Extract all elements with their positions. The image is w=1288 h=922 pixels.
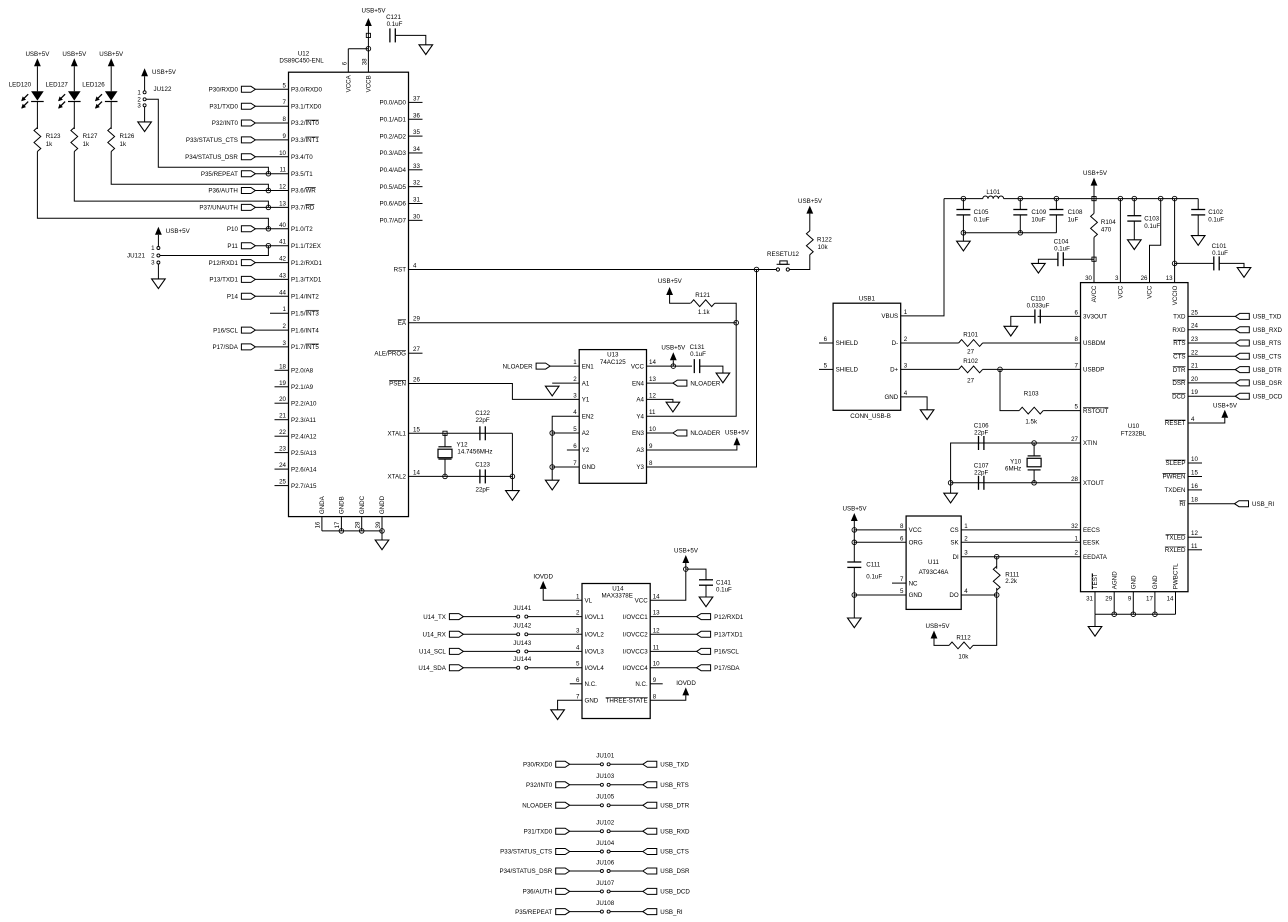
svg-text:4: 4 [904, 390, 908, 397]
svg-text:15: 15 [1191, 470, 1198, 477]
svg-text:USB_RTS: USB_RTS [660, 782, 688, 789]
wire USB+5V to R121 [670, 295, 691, 303]
wire P33/STATUS_CTS to JU104 [570, 851, 601, 853]
svg-text:GND: GND [585, 698, 599, 705]
wire U14_SCL to JU143 [463, 650, 516, 652]
svg-text:1: 1 [904, 309, 908, 316]
svg-text:13: 13 [1166, 275, 1173, 282]
U12 pin 15 XTAL1 label [388, 426, 421, 437]
svg-text:FT232BL: FT232BL [1121, 431, 1147, 438]
wire R103 to RSTOUT [1043, 410, 1080, 412]
svg-text:R126: R126 [120, 133, 135, 140]
wire RESETU12 to R122 [789, 255, 809, 270]
wire JU122 pin2 to P3.5 net [146, 99, 268, 173]
svg-text:USB_RTS: USB_RTS [1253, 340, 1281, 347]
svg-text:USB+5V: USB+5V [25, 51, 50, 58]
IC U14 MAX3378E body [582, 584, 650, 719]
U12 pin 22 P2.4/A12 [275, 429, 318, 440]
U10 pin 4 RESET label [1165, 416, 1195, 427]
wire XTAL1 net [409, 432, 513, 434]
svg-text:3: 3 [576, 627, 580, 634]
U12 pin 2 P1.6/INT4 label [283, 323, 320, 334]
IC U13 74AC125 body [579, 350, 646, 484]
capacitor C106 22pF [974, 423, 989, 450]
junction rail-C103 [1132, 196, 1137, 201]
svg-text:CS: CS [950, 527, 959, 534]
IC U14 title [602, 586, 633, 600]
svg-text:NLOADER: NLOADER [522, 803, 552, 810]
svg-text:GND: GND [909, 592, 923, 599]
U12 pin 23 P2.5/A13 [275, 446, 318, 457]
svg-text:6: 6 [341, 61, 348, 65]
resistor R101 27 [959, 332, 983, 356]
svg-text:11: 11 [1191, 543, 1198, 550]
svg-text:USB+5V: USB+5V [661, 344, 686, 351]
svg-text:9: 9 [1128, 596, 1132, 603]
svg-text:R121: R121 [695, 292, 710, 299]
svg-text:LED120: LED120 [9, 81, 32, 88]
U13 pin 5 A2 label [573, 426, 590, 437]
connector flag P33/STATUS_CTS [186, 137, 256, 144]
U11 pin 6 ORG label [900, 535, 923, 546]
svg-text:RSTOUT: RSTOUT [1083, 408, 1109, 415]
connector flag P31/TXD0 [209, 103, 255, 110]
svg-text:P3.1/TXD0: P3.1/TXD0 [291, 103, 322, 110]
svg-text:TXD: TXD [1173, 314, 1186, 321]
svg-text:USB_DCD: USB_DCD [1253, 393, 1283, 400]
U12 pin 8 P3.2/INT0 label [283, 116, 320, 127]
svg-text:I/OVL1: I/OVL1 [585, 614, 605, 621]
U10 pin 31 TEST [1086, 573, 1099, 614]
svg-text:GNDD: GNDD [379, 495, 386, 514]
svg-text:P0.7/AD7: P0.7/AD7 [380, 218, 407, 225]
capacitor C107 22pF [974, 462, 989, 489]
svg-text:P0.0/AD0: P0.0/AD0 [380, 100, 407, 107]
jumper JU104 [596, 840, 614, 853]
svg-text:6: 6 [576, 677, 580, 684]
svg-text:USBDP: USBDP [1083, 367, 1104, 374]
svg-text:P1.7/INT5: P1.7/INT5 [291, 344, 319, 351]
U10 pin 29 AGND [1105, 571, 1118, 614]
jumper JU143 [513, 640, 531, 653]
connector flag P30/RXD0 [209, 86, 256, 93]
U12 pin 4 RST label [394, 263, 417, 274]
svg-text:P34/STATUS_DSR: P34/STATUS_DSR [185, 154, 238, 161]
wire JU143 to U14 [528, 650, 582, 652]
svg-text:R104: R104 [1101, 219, 1116, 226]
svg-text:44: 44 [279, 289, 286, 296]
U12 pin 30 P0.7/AD7 [380, 213, 423, 224]
svg-text:USB1: USB1 [859, 296, 876, 303]
U11 pin 5 GND label [900, 588, 923, 599]
svg-text:XTIN: XTIN [1083, 440, 1097, 447]
svg-text:GNDC: GNDC [359, 495, 366, 514]
wire VBUS to rail [901, 199, 944, 316]
junction rail-C109 [1018, 196, 1023, 201]
svg-text:2: 2 [904, 336, 908, 343]
U12 pin 10 P3.4/T0 label [279, 150, 313, 161]
svg-text:EN4: EN4 [632, 380, 645, 387]
wire VCC pin3 [1119, 199, 1121, 283]
U11 pin 4 DO label [949, 588, 968, 599]
connector flag P36/AUTH [208, 188, 255, 195]
svg-text:C108: C108 [1068, 209, 1083, 216]
svg-text:USB_CTS: USB_CTS [1253, 354, 1282, 361]
svg-text:USB+5V: USB+5V [1083, 170, 1108, 177]
connector flag NLOADER (JU105) [522, 802, 569, 809]
svg-text:3: 3 [573, 392, 577, 399]
svg-text:RXD: RXD [1172, 327, 1186, 334]
U10 pin 13 VCCIO [1166, 275, 1179, 305]
svg-text:11: 11 [649, 409, 656, 416]
junction XTIN-Y10 [1032, 441, 1037, 446]
svg-text:Y2: Y2 [582, 447, 590, 454]
svg-text:21: 21 [279, 413, 286, 420]
svg-text:P16/SCL: P16/SCL [714, 649, 739, 656]
U13 pin 3 Y1 label [573, 392, 590, 403]
svg-text:P3.7/RD: P3.7/RD [291, 205, 315, 212]
jumper JU103 [596, 773, 614, 786]
ground (U13 A4) [666, 402, 680, 412]
svg-text:A2: A2 [582, 430, 590, 437]
junction U13 A2 [550, 431, 555, 436]
svg-text:10uF: 10uF [1031, 217, 1045, 224]
svg-text:JU121: JU121 [127, 253, 145, 260]
svg-text:0.033uF: 0.033uF [1027, 302, 1050, 309]
U10 pin 2 EEDATA label [1075, 550, 1108, 561]
connector flag USB_RI [1235, 501, 1275, 508]
U10 pin 27 XTIN label [1071, 436, 1097, 447]
wire RESET to USB+5V [1188, 418, 1225, 423]
ground (C102) [1191, 236, 1205, 246]
svg-text:PWREN: PWREN [1162, 474, 1185, 481]
wire JU142 to U14 [528, 633, 582, 635]
svg-text:1.1k: 1.1k [698, 309, 711, 316]
connector flag USB_RXD [1235, 327, 1282, 334]
svg-text:C101: C101 [1212, 243, 1227, 250]
svg-text:2: 2 [1075, 550, 1079, 557]
svg-text:A3: A3 [636, 447, 644, 454]
connector flag USB_CTS (JU104) [643, 849, 689, 856]
connector flag P31/TXD0 (JU102) [524, 828, 570, 835]
wire JU101 to USB_TXD [610, 763, 643, 765]
svg-text:2: 2 [964, 535, 968, 542]
svg-text:38: 38 [361, 58, 368, 65]
junction P1.1 net [266, 243, 271, 248]
svg-text:VCCB: VCCB [366, 75, 373, 92]
power USB+5V (LED120) [25, 51, 50, 66]
U12 pin 35 P0.2/AD2 [380, 129, 423, 140]
svg-text:P36/AUTH: P36/AUTH [208, 188, 238, 195]
U14 pin 7 GND label [576, 693, 599, 704]
connector flag U14_TX [423, 614, 463, 621]
svg-text:40: 40 [279, 222, 286, 229]
svg-text:JU142: JU142 [513, 623, 531, 630]
U11 pin 3 DI label [953, 550, 969, 561]
svg-text:EN3: EN3 [632, 430, 645, 437]
svg-text:P17/SDA: P17/SDA [714, 665, 740, 672]
svg-text:EN1: EN1 [582, 363, 595, 370]
svg-text:22pF: 22pF [476, 417, 490, 424]
svg-text:C109: C109 [1031, 209, 1046, 216]
wire D+ to R102 [901, 368, 959, 370]
wire P35/REPEAT to JU108 [570, 911, 601, 913]
junction XTAL1-Y12 [443, 431, 447, 435]
U10 pin 21 DTR label [1173, 363, 1199, 374]
svg-text:17: 17 [334, 521, 341, 528]
wire P13/TXD1 to U12 pin 43 [255, 278, 288, 280]
svg-text:C104: C104 [1054, 238, 1069, 245]
U12 pin 20 P2.2/A10 [275, 396, 318, 407]
svg-text:C110: C110 [1031, 295, 1046, 302]
svg-text:22: 22 [1191, 349, 1198, 356]
svg-text:2: 2 [151, 253, 155, 260]
ground (U13) [545, 480, 559, 490]
svg-text:U14_TX: U14_TX [423, 614, 446, 621]
IC U10 title [1121, 423, 1147, 438]
svg-text:P1.5/INT3: P1.5/INT3 [291, 310, 319, 317]
svg-text:TXLED: TXLED [1166, 534, 1186, 541]
junction P1.0 net [266, 227, 271, 232]
wire C105 bottom lead [962, 215, 964, 233]
svg-text:7: 7 [283, 99, 287, 106]
svg-text:C103: C103 [1144, 215, 1159, 222]
wire P16/SCL to U12 pin 2 [255, 329, 288, 331]
U10 pin 12 TXLED [1166, 530, 1202, 541]
svg-text:20: 20 [1191, 376, 1198, 383]
wire JU141 to U14 [528, 616, 582, 618]
svg-text:22pF: 22pF [974, 430, 988, 437]
svg-text:JU141: JU141 [513, 605, 531, 612]
power USB+5V (U11) [843, 505, 868, 521]
svg-text:7: 7 [1075, 362, 1079, 369]
svg-text:LED126: LED126 [82, 81, 105, 88]
wire NLOADER to EN1 [550, 365, 579, 367]
svg-text:24: 24 [1191, 323, 1198, 330]
svg-text:RI: RI [1179, 501, 1185, 508]
jumper JU105 [596, 794, 614, 807]
svg-text:EA: EA [398, 320, 407, 327]
wire RXD to USB_RXD [1188, 329, 1235, 331]
wire to ground (XTAL Y10) [950, 483, 952, 493]
svg-text:43: 43 [279, 272, 286, 279]
svg-text:IOVDD: IOVDD [533, 573, 553, 580]
ground (C121) [419, 45, 433, 55]
svg-text:P3.4/T0: P3.4/T0 [291, 154, 313, 161]
jumper JU122 [137, 86, 172, 110]
capacitor C104 0.1uF [1054, 238, 1071, 266]
wire VCCB to USB+5V [367, 26, 369, 35]
svg-text:4: 4 [576, 644, 580, 651]
svg-text:R102: R102 [963, 358, 978, 365]
svg-text:USB_RI: USB_RI [1252, 501, 1275, 508]
svg-text:34: 34 [413, 146, 420, 153]
svg-text:0.1uF: 0.1uF [716, 587, 732, 594]
power USB+5V (R112) [926, 623, 951, 639]
ground (C105/C109/C108) [957, 241, 971, 251]
svg-text:USB+5V: USB+5V [152, 69, 177, 76]
svg-text:U14_RX: U14_RX [423, 632, 446, 639]
svg-text:NLOADER: NLOADER [690, 380, 720, 387]
U10 pin 32 EECS label [1071, 523, 1100, 534]
connector flag USB_RTS [1235, 340, 1281, 347]
svg-text:USB_DSR: USB_DSR [660, 868, 690, 875]
svg-text:33: 33 [413, 163, 420, 170]
power IOVDD (U14 pin8) [676, 680, 696, 696]
svg-text:P3.5/T1: P3.5/T1 [291, 171, 313, 178]
svg-text:VBUS: VBUS [881, 313, 898, 320]
svg-text:U14: U14 [612, 586, 624, 593]
wire RTS to USB_RTS [1188, 342, 1235, 344]
USB1 pin 6 SHIELD [819, 336, 858, 347]
svg-text:VCC: VCC [635, 598, 649, 605]
wire P34/STATUS_DSR to U12 pin 10 [255, 156, 288, 158]
power IOVDD (U14 VL) [533, 573, 553, 589]
wire JU122 pin3 to ground [144, 107, 146, 122]
svg-text:PSEN: PSEN [389, 381, 406, 388]
svg-text:USB+5V: USB+5V [926, 623, 951, 630]
svg-text:USBDM: USBDM [1083, 340, 1105, 347]
wire power rail 2 [1004, 198, 1199, 200]
ground (U11) [848, 618, 862, 628]
wire P30/RXD0 to U12 pin 5 [255, 88, 288, 90]
svg-text:USB_DTR: USB_DTR [1253, 367, 1282, 374]
svg-text:P17/SDA: P17/SDA [212, 344, 238, 351]
svg-text:AVCC: AVCC [1091, 285, 1098, 302]
wire U11 gnd stem [853, 595, 855, 618]
connector USB1 CONN_USB-B body [833, 303, 901, 410]
svg-text:C122: C122 [475, 410, 490, 417]
IC U11 title [919, 559, 950, 576]
power USB+5V (R121) [658, 278, 683, 295]
svg-text:P37/UNAUTH: P37/UNAUTH [199, 205, 238, 212]
U12 pin 43 P1.3/TXD1 label [279, 272, 322, 283]
svg-text:12: 12 [649, 392, 656, 399]
wire D- to R101 [901, 342, 959, 344]
power USB+5V (U13) [661, 344, 686, 360]
wire R103 branch [1000, 369, 1019, 410]
U12 pin 1 stub [270, 312, 289, 314]
svg-text:15: 15 [413, 426, 420, 433]
svg-text:3: 3 [283, 340, 287, 347]
svg-text:3: 3 [964, 550, 968, 557]
wire JU121 pin3 to ground [157, 264, 159, 279]
svg-text:D+: D+ [890, 367, 898, 374]
svg-text:USB_TXD: USB_TXD [660, 762, 689, 769]
svg-text:CTS: CTS [1173, 354, 1185, 361]
svg-text:P2.4/A12: P2.4/A12 [291, 433, 317, 440]
svg-text:R103: R103 [1024, 390, 1039, 397]
U10 pin 6 3V3OUT label [1075, 309, 1108, 320]
wire USB+5V to U11 VCC [854, 521, 906, 530]
U12 pin 37 P0.0/AD0 [380, 95, 423, 106]
wire PSEN to U13 Y1 [409, 384, 580, 400]
svg-text:27: 27 [1071, 436, 1078, 443]
svg-text:13: 13 [279, 200, 286, 207]
U12 pin 19 P2.1/A9 [275, 380, 314, 391]
wire C122/C123 to ground [511, 433, 513, 490]
capacitor C109 10uF [1013, 209, 1046, 224]
U14 pin 5 I/OVL4 label [576, 661, 604, 672]
ground (U10) [1088, 627, 1102, 637]
wire EA net [409, 322, 737, 324]
U12 pin 44 P1.4/INT2 label [279, 289, 319, 300]
svg-text:1: 1 [151, 245, 155, 252]
junction U11 VCC [852, 528, 857, 533]
U10 pin 30 AVCC [1085, 275, 1098, 302]
svg-text:U13: U13 [607, 352, 619, 359]
U14 pin 10 I/OVCC4 label [623, 661, 660, 672]
svg-text:24: 24 [279, 462, 286, 469]
svg-text:16: 16 [1191, 483, 1198, 490]
wire I/OVCC to P13/TXD1 [650, 633, 696, 635]
U12 pin 25 P2.7/A15 [275, 479, 318, 490]
svg-text:TXDEN: TXDEN [1165, 487, 1186, 494]
svg-text:P0.5/AD5: P0.5/AD5 [380, 184, 407, 191]
svg-text:P30/RXD0: P30/RXD0 [209, 87, 239, 94]
svg-text:P10: P10 [227, 226, 239, 233]
connector flag USB_TXD [1235, 313, 1282, 320]
svg-text:P35/REPEAT: P35/REPEAT [515, 909, 552, 916]
wire R104 to AVCC node [1093, 237, 1095, 259]
svg-text:10: 10 [279, 150, 286, 157]
U10 pin 11 RXLED [1165, 543, 1202, 554]
wire C110 to ground [1011, 316, 1035, 326]
wire P32/INT0 to JU103 [570, 784, 601, 786]
capacitor C102 0.1uF [1191, 209, 1224, 224]
svg-text:AT93C46A: AT93C46A [919, 569, 950, 576]
connector flag USB_RTS (JU103) [643, 782, 689, 789]
svg-text:32: 32 [1071, 523, 1078, 530]
U12 pin 7 P3.1/TXD0 label [283, 99, 322, 110]
svg-text:I/OVL3: I/OVL3 [585, 649, 605, 656]
connector flag USB_CTS [1235, 353, 1281, 360]
wire LED127 cathode [73, 102, 75, 130]
wire P14 to U12 pin 44 [255, 295, 288, 297]
wire USB+5V stem (U14) [685, 563, 687, 569]
svg-text:25: 25 [279, 479, 286, 486]
svg-text:I/OVL4: I/OVL4 [585, 665, 605, 672]
svg-text:0.1uF: 0.1uF [1208, 217, 1224, 224]
wire EESK net [961, 541, 1080, 543]
svg-text:DO: DO [949, 592, 958, 599]
svg-text:P30/RXD0: P30/RXD0 [523, 762, 553, 769]
junction rail-VCCIO [1172, 196, 1177, 201]
svg-text:18: 18 [279, 363, 286, 370]
svg-text:P14: P14 [227, 294, 239, 301]
svg-text:EECS: EECS [1083, 527, 1100, 534]
U11 pin 8 VCC label [900, 523, 922, 534]
wire P33/STATUS_CTS to U12 pin 9 [255, 139, 288, 141]
ground (U13 A1) [545, 386, 559, 396]
jumper JU144 [513, 656, 531, 669]
wire C103 to ground [1133, 221, 1135, 240]
svg-text:0.1uF: 0.1uF [1054, 245, 1070, 252]
svg-text:0.1uF: 0.1uF [974, 217, 990, 224]
wire TXD to USB_TXD [1188, 315, 1235, 317]
svg-text:14: 14 [1167, 596, 1174, 603]
wire P34/STATUS_DSR to JU106 [570, 870, 601, 872]
U10 pin 10 SLEEP [1166, 456, 1202, 467]
svg-text:470: 470 [1101, 227, 1112, 234]
resistor R102 27 [959, 358, 983, 385]
IC U13 title [600, 352, 626, 366]
connector flag P37/UNAUTH [199, 204, 255, 211]
svg-text:U14_SDA: U14_SDA [418, 665, 446, 672]
svg-text:P0.4/AD4: P0.4/AD4 [380, 167, 407, 174]
U10 pin 28 XTOUT label [1071, 476, 1104, 487]
jumper JU106 [596, 859, 614, 872]
